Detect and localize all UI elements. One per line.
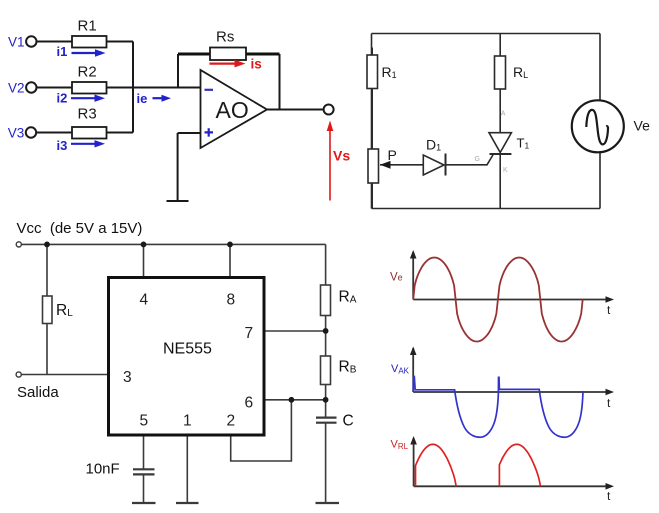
svg-text:1: 1	[183, 413, 192, 430]
svg-text:4: 4	[140, 292, 149, 309]
svg-text:Vcc (de 5V a 15V): Vcc (de 5V a 15V)	[17, 220, 143, 237]
svg-text:R2: R2	[78, 64, 97, 81]
svg-text:Rs: Rs	[216, 29, 234, 46]
svg-text:C: C	[343, 413, 354, 430]
svg-text:7: 7	[245, 325, 254, 342]
svg-text:A: A	[501, 111, 506, 118]
svg-text:i3: i3	[57, 138, 68, 153]
svg-text:AO: AO	[216, 97, 249, 123]
svg-text:V2: V2	[8, 80, 25, 95]
svg-text:i2: i2	[57, 91, 68, 106]
svg-text:6: 6	[245, 394, 254, 411]
svg-text:V1: V1	[8, 34, 25, 49]
svg-text:ie: ie	[137, 91, 148, 106]
svg-text:K: K	[503, 167, 508, 174]
svg-text:R3: R3	[78, 106, 97, 123]
svg-text:2: 2	[227, 413, 236, 430]
svg-text:Ve: Ve	[634, 118, 651, 134]
svg-text:V3: V3	[8, 125, 25, 140]
svg-text:8: 8	[227, 292, 236, 309]
svg-text:3: 3	[123, 369, 132, 386]
svg-text:5: 5	[140, 413, 149, 430]
svg-text:G: G	[475, 156, 480, 163]
svg-text:Ve: Ve	[390, 272, 403, 284]
svg-text:P: P	[388, 147, 397, 163]
svg-text:R1: R1	[78, 18, 97, 35]
svg-text:is: is	[251, 57, 262, 72]
svg-text:10nF: 10nF	[86, 461, 120, 478]
svg-text:Salida: Salida	[17, 384, 59, 401]
svg-text:i1: i1	[57, 44, 68, 59]
svg-text:Vs: Vs	[333, 148, 350, 164]
svg-text:NE555: NE555	[163, 341, 212, 358]
